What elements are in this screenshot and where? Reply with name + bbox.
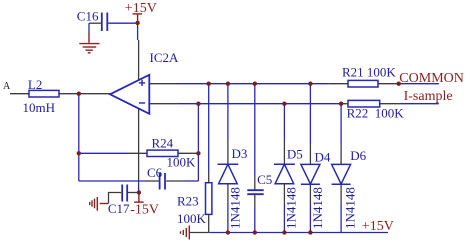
svg-text:100K: 100K — [167, 155, 197, 170]
svg-text:D6: D6 — [350, 148, 366, 163]
svg-text:R23: R23 — [177, 194, 199, 209]
svg-text:C5: C5 — [257, 172, 272, 187]
svg-text:1N4148: 1N4148 — [284, 187, 299, 229]
svg-text:L2: L2 — [28, 77, 42, 92]
svg-text:IC2A: IC2A — [150, 50, 180, 65]
svg-text:R22 100K: R22 100K — [347, 106, 405, 121]
svg-text:R24: R24 — [152, 136, 174, 151]
svg-text:1N4148: 1N4148 — [228, 187, 243, 229]
svg-text:COMMON: COMMON — [399, 71, 464, 86]
svg-text:+15V: +15V — [362, 219, 394, 234]
svg-text:C17: C17 — [108, 201, 130, 216]
svg-text:1N4148: 1N4148 — [343, 187, 358, 229]
svg-text:A: A — [3, 81, 11, 92]
svg-text:C6: C6 — [147, 165, 163, 180]
svg-text:100K: 100K — [177, 211, 207, 226]
svg-text:10mH: 10mH — [23, 100, 56, 115]
svg-text:+15V: +15V — [125, 1, 157, 16]
svg-text:D3: D3 — [232, 146, 248, 161]
svg-text:C16: C16 — [77, 8, 99, 23]
svg-text:R21 100K: R21 100K — [342, 65, 396, 80]
svg-text:D4: D4 — [315, 150, 331, 165]
svg-text:1N4148: 1N4148 — [310, 187, 325, 229]
svg-text:I-sample: I-sample — [404, 89, 453, 104]
svg-text:-15V: -15V — [130, 203, 159, 218]
svg-text:D5: D5 — [287, 147, 303, 162]
